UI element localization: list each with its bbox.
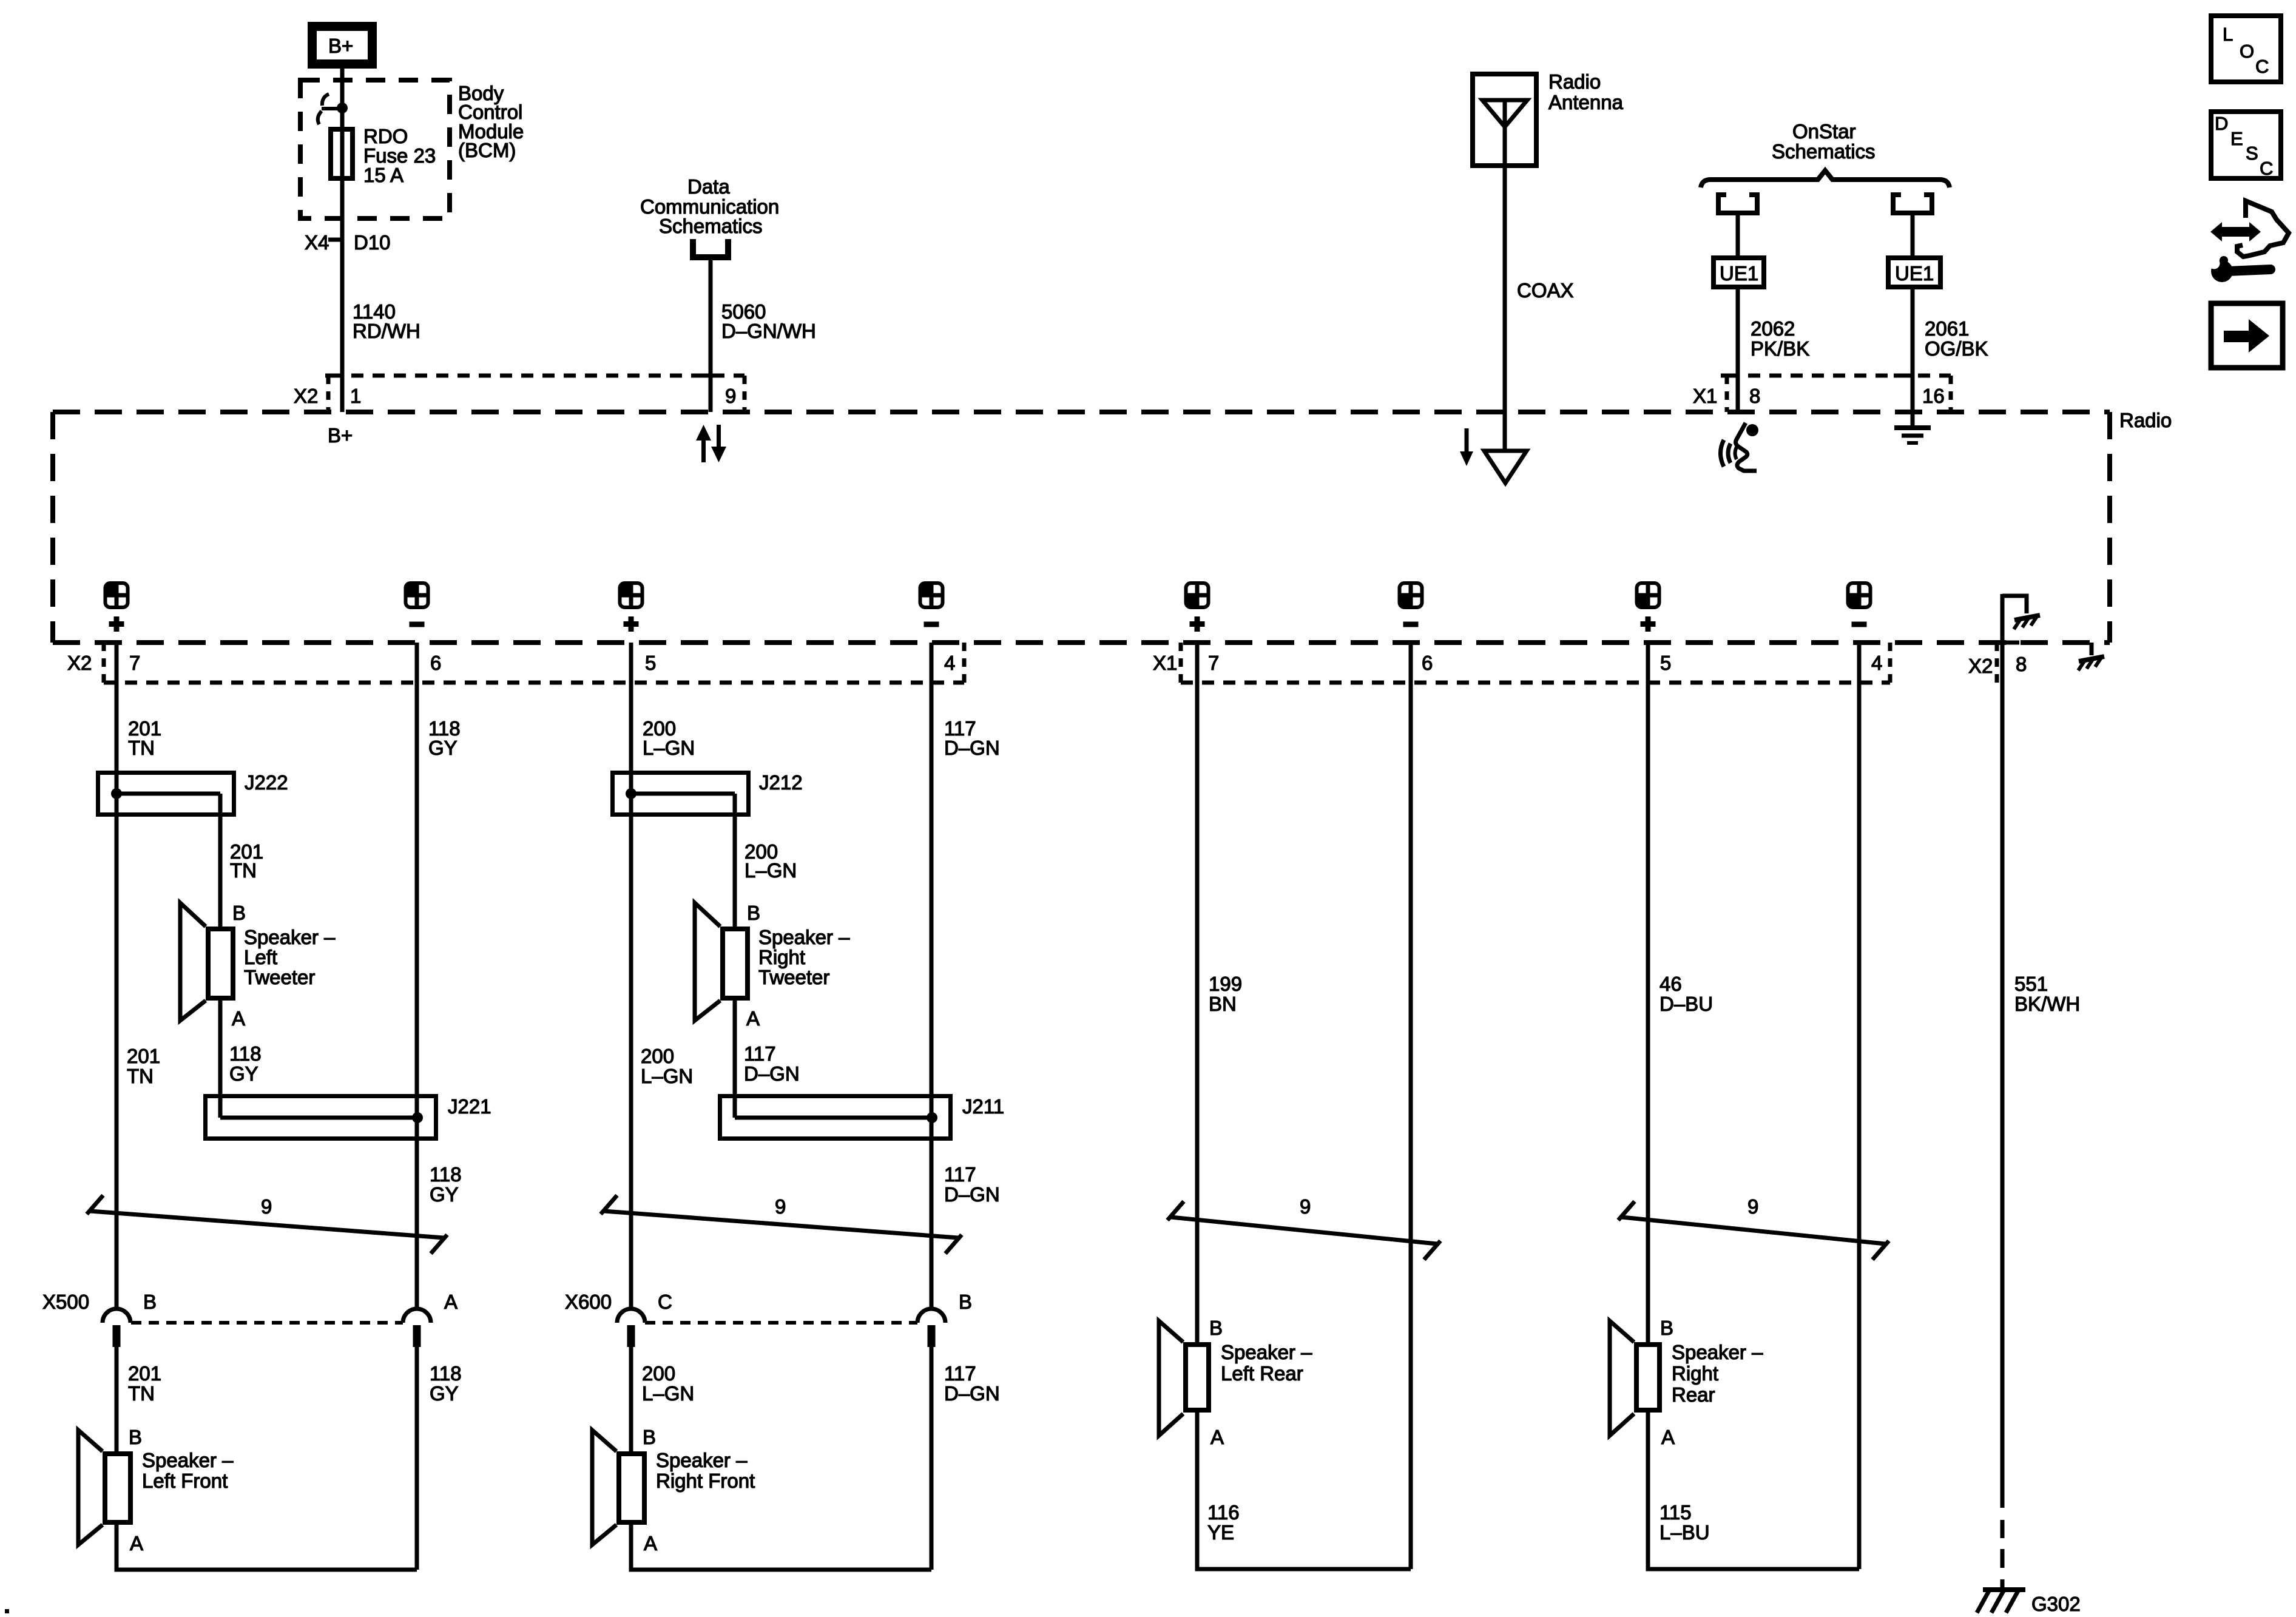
svg-text:15 A: 15 A bbox=[363, 164, 403, 186]
svg-text:B: B bbox=[1209, 1317, 1223, 1339]
svg-text:46: 46 bbox=[1660, 973, 1682, 995]
svg-text:Left Front: Left Front bbox=[142, 1470, 228, 1492]
svg-text:C: C bbox=[658, 1291, 672, 1313]
svg-text:D–GN: D–GN bbox=[944, 1382, 1000, 1405]
svg-text:8: 8 bbox=[2016, 653, 2027, 675]
svg-text:Radio: Radio bbox=[2119, 409, 2172, 431]
svg-text:L–GN: L–GN bbox=[642, 1382, 694, 1405]
svg-text:GY: GY bbox=[430, 1183, 459, 1206]
svg-text:B: B bbox=[1660, 1317, 1673, 1339]
svg-text:D–BU: D–BU bbox=[1660, 993, 1713, 1015]
svg-text:GY: GY bbox=[430, 1382, 459, 1405]
svg-text:J222: J222 bbox=[245, 771, 288, 794]
svg-text:Data: Data bbox=[687, 175, 730, 198]
svg-text:118: 118 bbox=[229, 1042, 262, 1065]
svg-text:C: C bbox=[2255, 56, 2269, 77]
svg-text:6: 6 bbox=[430, 652, 441, 674]
svg-text:L–GN: L–GN bbox=[643, 737, 695, 759]
svg-text:X4: X4 bbox=[305, 231, 329, 254]
svg-text:4: 4 bbox=[944, 652, 955, 674]
svg-text:Speaker –: Speaker – bbox=[142, 1449, 234, 1471]
svg-text:Tweeter: Tweeter bbox=[244, 966, 315, 988]
svg-text:2061: 2061 bbox=[1925, 317, 1969, 340]
svg-text:118: 118 bbox=[430, 1362, 462, 1385]
svg-text:Left Rear: Left Rear bbox=[1221, 1362, 1303, 1385]
svg-text:16: 16 bbox=[1922, 385, 1945, 407]
svg-text:1: 1 bbox=[350, 385, 361, 407]
svg-text:201: 201 bbox=[127, 1045, 160, 1067]
svg-text:UE1: UE1 bbox=[1895, 262, 1934, 285]
svg-text:J221: J221 bbox=[448, 1095, 491, 1118]
svg-text:(BCM): (BCM) bbox=[458, 139, 516, 161]
svg-text:9: 9 bbox=[1300, 1195, 1311, 1218]
svg-text:4: 4 bbox=[1871, 652, 1882, 674]
svg-text:8: 8 bbox=[1749, 385, 1760, 407]
svg-text:OnStar: OnStar bbox=[1792, 120, 1856, 143]
svg-text:X500: X500 bbox=[42, 1291, 89, 1313]
svg-text:TN: TN bbox=[230, 859, 257, 882]
svg-text:L–GN: L–GN bbox=[641, 1065, 693, 1087]
svg-text:X2: X2 bbox=[294, 385, 318, 407]
svg-text:A: A bbox=[1661, 1426, 1675, 1448]
svg-text:Right Front: Right Front bbox=[656, 1470, 755, 1492]
svg-text:COAX: COAX bbox=[1517, 279, 1574, 302]
svg-text:118: 118 bbox=[430, 1163, 462, 1186]
svg-text:551: 551 bbox=[2014, 973, 2048, 995]
svg-text:X2: X2 bbox=[67, 652, 92, 674]
svg-text:9: 9 bbox=[1747, 1195, 1758, 1218]
svg-text:G302: G302 bbox=[2031, 1593, 2081, 1615]
svg-text:Antenna: Antenna bbox=[1548, 91, 1624, 113]
svg-text:X1: X1 bbox=[1693, 385, 1717, 407]
svg-text:199: 199 bbox=[1209, 973, 1242, 995]
svg-text:D–GN/WH: D–GN/WH bbox=[721, 320, 816, 342]
svg-text:A: A bbox=[746, 1007, 760, 1030]
svg-text:O: O bbox=[2240, 41, 2254, 62]
svg-text:Speaker –: Speaker – bbox=[1221, 1341, 1312, 1363]
svg-text:RD/WH: RD/WH bbox=[353, 320, 420, 342]
svg-text:J212: J212 bbox=[759, 771, 803, 794]
svg-text:TN: TN bbox=[128, 1382, 155, 1405]
svg-text:GY: GY bbox=[229, 1062, 258, 1085]
svg-text:9: 9 bbox=[261, 1195, 272, 1218]
svg-text:117: 117 bbox=[744, 1042, 776, 1065]
svg-text:A: A bbox=[232, 1007, 245, 1030]
svg-text:Radio: Radio bbox=[1548, 70, 1601, 93]
svg-text:GY: GY bbox=[428, 737, 458, 759]
svg-text:D: D bbox=[2215, 113, 2228, 134]
svg-text:TN: TN bbox=[127, 1065, 154, 1087]
svg-text:7: 7 bbox=[1208, 652, 1219, 674]
svg-text:5: 5 bbox=[1660, 652, 1671, 674]
svg-text:Right: Right bbox=[1672, 1362, 1718, 1385]
svg-text:E: E bbox=[2230, 128, 2243, 149]
svg-text:D10: D10 bbox=[354, 231, 391, 254]
svg-text:115: 115 bbox=[1660, 1501, 1692, 1524]
svg-text:C: C bbox=[2260, 158, 2273, 179]
svg-text:Rear: Rear bbox=[1672, 1383, 1715, 1406]
svg-text:Schematics: Schematics bbox=[1772, 140, 1876, 163]
svg-text:Speaker –: Speaker – bbox=[758, 926, 850, 948]
svg-text:X600: X600 bbox=[565, 1291, 612, 1313]
svg-text:S: S bbox=[2246, 143, 2258, 164]
svg-text:A: A bbox=[1210, 1426, 1224, 1448]
svg-text:D–GN: D–GN bbox=[944, 737, 1000, 759]
svg-text:X1: X1 bbox=[1153, 652, 1177, 674]
svg-text:Speaker –: Speaker – bbox=[1672, 1341, 1763, 1363]
svg-text:Right: Right bbox=[758, 946, 805, 968]
svg-text:Speaker –: Speaker – bbox=[656, 1449, 748, 1471]
svg-text:A: A bbox=[644, 1532, 657, 1555]
svg-text:TN: TN bbox=[128, 737, 155, 759]
svg-text:D–GN: D–GN bbox=[944, 1183, 1000, 1206]
svg-text:9: 9 bbox=[775, 1195, 786, 1218]
svg-text:BK/WH: BK/WH bbox=[2014, 993, 2080, 1015]
svg-text:116: 116 bbox=[1207, 1501, 1240, 1524]
svg-text:B: B bbox=[643, 1426, 656, 1448]
svg-text:200: 200 bbox=[642, 1362, 675, 1385]
svg-text:B: B bbox=[129, 1426, 142, 1448]
svg-text:A: A bbox=[130, 1532, 143, 1555]
svg-text:Schematics: Schematics bbox=[659, 215, 763, 237]
svg-text:117: 117 bbox=[944, 1163, 976, 1186]
svg-text:9: 9 bbox=[725, 385, 736, 407]
svg-text:B: B bbox=[143, 1291, 157, 1313]
svg-text:BN: BN bbox=[1209, 993, 1237, 1015]
svg-text:7: 7 bbox=[129, 652, 140, 674]
svg-text:OG/BK: OG/BK bbox=[1925, 337, 1988, 360]
svg-text:YE: YE bbox=[1207, 1521, 1234, 1544]
svg-text:2062: 2062 bbox=[1751, 317, 1795, 340]
svg-text:6: 6 bbox=[1422, 652, 1433, 674]
svg-text:L–GN: L–GN bbox=[745, 859, 797, 882]
svg-text:L–BU: L–BU bbox=[1660, 1521, 1710, 1544]
svg-text:117: 117 bbox=[944, 1362, 976, 1385]
svg-text:UE1: UE1 bbox=[1720, 262, 1758, 285]
svg-text:Tweeter: Tweeter bbox=[758, 966, 829, 988]
svg-text:5: 5 bbox=[645, 652, 656, 674]
svg-text:B+: B+ bbox=[328, 424, 353, 447]
svg-text:201: 201 bbox=[128, 1362, 161, 1385]
svg-text:B+: B+ bbox=[328, 35, 353, 57]
svg-text:X2: X2 bbox=[1968, 655, 1993, 677]
svg-text:B: B bbox=[232, 902, 246, 924]
svg-text:200: 200 bbox=[641, 1045, 674, 1067]
svg-text:Speaker –: Speaker – bbox=[244, 926, 336, 948]
svg-text:PK/BK: PK/BK bbox=[1751, 337, 1809, 360]
svg-text:Left: Left bbox=[244, 946, 277, 968]
svg-text:B: B bbox=[747, 902, 760, 924]
svg-text:J211: J211 bbox=[962, 1095, 1004, 1118]
svg-text:B: B bbox=[959, 1291, 972, 1313]
svg-text:L: L bbox=[2223, 24, 2233, 45]
svg-text:D–GN: D–GN bbox=[744, 1062, 800, 1085]
svg-text:A: A bbox=[444, 1291, 458, 1313]
